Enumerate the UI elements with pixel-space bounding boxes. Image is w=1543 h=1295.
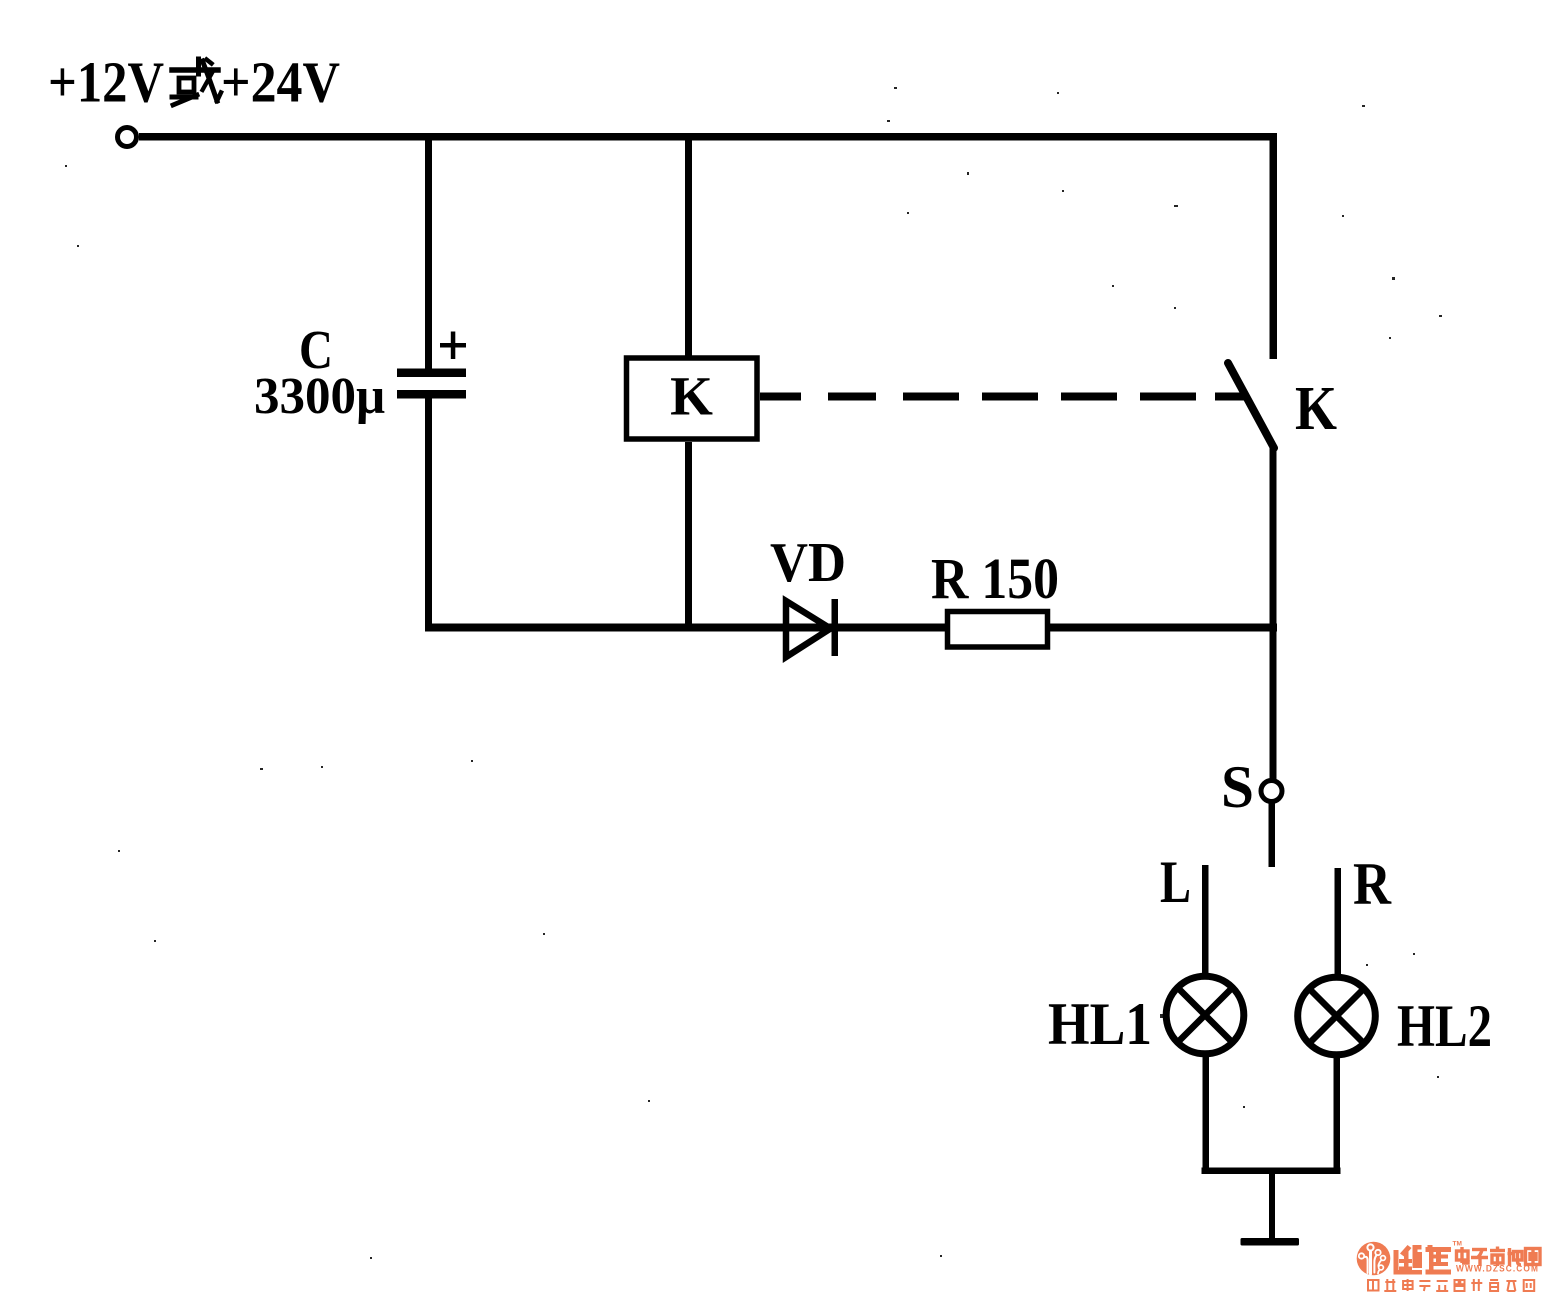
svg-text:L: L bbox=[1160, 849, 1191, 915]
svg-text:HL2: HL2 bbox=[1397, 993, 1492, 1059]
svg-text:VD: VD bbox=[770, 532, 846, 594]
svg-text:TM: TM bbox=[1453, 1241, 1462, 1248]
svg-text:R: R bbox=[1353, 851, 1392, 917]
svg-text:HL1: HL1 bbox=[1048, 991, 1152, 1057]
svg-text:+12V: +12V bbox=[48, 50, 164, 115]
svg-text:K: K bbox=[670, 366, 713, 427]
svg-text:+24V: +24V bbox=[221, 50, 340, 115]
svg-text:WWW.DZSC.COM: WWW.DZSC.COM bbox=[1456, 1264, 1539, 1274]
svg-text:S: S bbox=[1221, 754, 1254, 820]
svg-text:R 150: R 150 bbox=[931, 546, 1059, 611]
svg-text:3300μ: 3300μ bbox=[254, 368, 385, 425]
svg-text:K: K bbox=[1295, 375, 1337, 443]
